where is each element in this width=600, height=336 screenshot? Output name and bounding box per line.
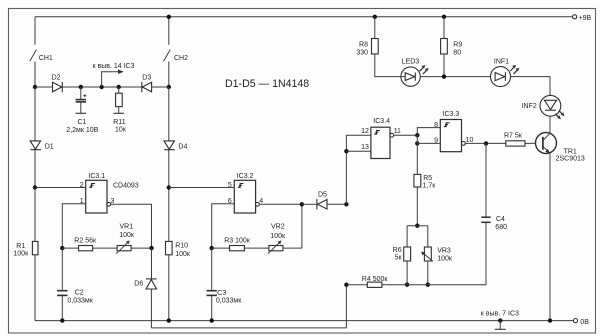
wire feedback vertical to IC3.4 inputs — [346, 135, 371, 204]
potentiometer VR3 — [421, 226, 453, 285]
svg-text:D1: D1 — [45, 144, 54, 151]
wire TR1 collector to INF2 — [549, 116, 551, 133]
wire IC3.2 pin 5 — [169, 187, 235, 189]
svg-text:INF1: INF1 — [494, 59, 509, 66]
svg-text:680: 680 — [495, 224, 507, 231]
switch CH2 — [164, 50, 171, 62]
svg-text:100к: 100к — [437, 255, 453, 262]
LED INF1 — [491, 59, 520, 87]
svg-text:5к: 5к — [395, 255, 403, 262]
node out11 junction — [415, 133, 419, 137]
node VR1 right junction — [149, 246, 153, 250]
resistor R6 — [393, 226, 411, 285]
node pin7 tap — [498, 318, 502, 322]
wire IC3.2 pin 6 — [212, 204, 235, 248]
svg-text:VR3: VR3 — [437, 248, 451, 255]
svg-text:LED3: LED3 — [402, 59, 420, 66]
node R8 top — [373, 15, 377, 19]
potentiometer VR1 — [116, 224, 151, 254]
resistor R7 — [504, 132, 543, 146]
svg-text:INF2: INF2 — [522, 103, 537, 110]
node TR1 emitter bottom — [548, 318, 552, 322]
node arrow tap — [99, 85, 103, 89]
wire bottom 0V bus — [35, 320, 573, 322]
svg-text:IC3.2: IC3.2 — [237, 173, 254, 180]
svg-text:R8: R8 — [359, 42, 368, 49]
svg-text:CH1: CH1 — [39, 55, 53, 62]
svg-text:R6: R6 — [393, 247, 402, 254]
svg-text:5: 5 — [228, 182, 232, 189]
svg-text:+9В: +9В — [579, 15, 592, 22]
resistor R11 — [113, 87, 126, 134]
svg-text:2SC9013: 2SC9013 — [556, 156, 585, 163]
node pin13 tap — [344, 149, 348, 153]
wire left vertical upper — [34, 17, 36, 45]
svg-text:0,033мк: 0,033мк — [67, 297, 93, 304]
node right D3 junction — [167, 85, 171, 89]
wire IC3.1 output to VR1 right — [111, 204, 152, 248]
wire IC3.3 pin 9 — [417, 135, 440, 143]
node pin2 junction — [33, 185, 37, 189]
wire R6/VR3 top bridge — [407, 225, 428, 227]
wire LED3 to INF1 — [420, 76, 490, 78]
LED INF2 — [522, 95, 565, 119]
LED LED3 — [401, 59, 429, 87]
svg-text:100к: 100к — [13, 251, 29, 258]
svg-text:C2: C2 — [75, 289, 84, 296]
svg-text:R10: R10 — [175, 243, 188, 250]
node C3 bottom — [210, 318, 214, 322]
svg-text:100к: 100к — [119, 232, 135, 239]
capacitor C4 — [481, 143, 507, 284]
svg-text:D2: D2 — [52, 75, 61, 82]
node pin9 junction — [415, 141, 419, 145]
wire IC3.4 out to node — [394, 134, 418, 136]
svg-text:R2 56к: R2 56к — [74, 237, 97, 244]
terminal +9V — [573, 15, 577, 19]
wire INF1 to INF2 — [511, 77, 551, 96]
node D5 branch — [300, 202, 304, 206]
node R10 bottom — [167, 318, 171, 322]
svg-text:80: 80 — [453, 50, 461, 57]
svg-text:9: 9 — [434, 138, 438, 145]
svg-text:1: 1 — [80, 198, 84, 205]
svg-text:13: 13 — [361, 144, 369, 151]
svg-text:2: 2 — [80, 182, 84, 189]
wire CH2 vertical upper — [168, 17, 170, 45]
node R9 bottom junction — [442, 74, 446, 78]
capacitor C3 — [207, 248, 243, 321]
svg-text:6: 6 — [228, 198, 232, 205]
svg-text:330: 330 — [356, 50, 368, 57]
capacitor C2 — [57, 248, 94, 321]
svg-text:2,2мк 10В: 2,2мк 10В — [66, 127, 98, 134]
svg-text:R11: R11 — [113, 119, 125, 126]
svg-text:100к: 100к — [175, 251, 191, 258]
wire IC3.2 output to node — [259, 204, 302, 248]
transistor TR1 — [536, 133, 585, 163]
op-amp gate IC3.1 — [86, 173, 139, 213]
pin bubble IC3.1 out 3 — [107, 202, 111, 206]
svg-text:C1: C1 — [78, 119, 87, 126]
svg-text:VR2: VR2 — [271, 224, 285, 231]
svg-text:8: 8 — [434, 122, 438, 129]
svg-text:VR1: VR1 — [120, 224, 134, 231]
terminal 0V — [573, 319, 577, 323]
svg-text:R4 500к: R4 500к — [362, 276, 389, 283]
svg-text:D1-D5 — 1N4148: D1-D5 — 1N4148 — [225, 78, 309, 90]
diode D4 — [164, 87, 187, 188]
node R3 left junction — [210, 246, 214, 250]
node C4 tap — [484, 141, 488, 145]
wire IC3.4 pin 13 — [346, 150, 371, 152]
svg-text:C4: C4 — [496, 216, 505, 223]
wire top +9V bus — [35, 16, 573, 18]
node R6 bottom — [405, 283, 409, 287]
op-amp gate IC3.3 — [440, 111, 461, 152]
wire left vertical to D2 line — [34, 62, 36, 88]
svg-text:D4: D4 — [178, 144, 187, 151]
svg-text:CH2: CH2 — [174, 55, 188, 62]
resistor R10 — [166, 241, 191, 258]
svg-text:R3 100к: R3 100к — [224, 237, 251, 244]
resistor R3 — [212, 237, 269, 250]
op-amp gate IC3.2 — [234, 173, 255, 213]
node C1 tap — [79, 85, 83, 89]
potentiometer VR2 — [268, 224, 302, 254]
diode D5 — [302, 192, 347, 210]
node C2 bottom — [60, 318, 64, 322]
svg-text:D6: D6 — [134, 281, 143, 288]
node CH2 top — [167, 15, 171, 19]
svg-text:12: 12 — [361, 128, 369, 135]
svg-text:IC3.3: IC3.3 — [443, 111, 460, 118]
pin 7 terminal symbol — [481, 311, 519, 330]
wire IC3.1 pin 2 — [35, 187, 86, 189]
svg-text:3: 3 — [111, 198, 115, 205]
diode D3 — [142, 75, 152, 93]
wire TR1 emitter to bus — [549, 153, 551, 320]
resistor R4 — [346, 276, 486, 288]
switch CH1 — [30, 50, 37, 62]
svg-text:0В: 0В — [580, 319, 589, 326]
wire to pin 14 arrow — [93, 63, 135, 87]
svg-text:D3: D3 — [142, 75, 151, 82]
svg-text:100к: 100к — [270, 233, 286, 240]
svg-text:10к: 10к — [115, 127, 127, 134]
diode D6 (to lower feedback line) — [134, 248, 156, 328]
resistor R1 — [13, 241, 38, 257]
svg-text:IC3.4: IC3.4 — [373, 118, 390, 125]
node left D2 junction — [33, 85, 37, 89]
svg-text:10: 10 — [466, 137, 474, 144]
svg-text:R9: R9 — [453, 42, 462, 49]
node R2 left junction — [60, 246, 64, 250]
resistor R2 — [62, 237, 117, 250]
svg-text:1,7к: 1,7к — [423, 183, 437, 190]
node R5 bottom junction — [415, 224, 419, 228]
diode D1 — [30, 87, 54, 188]
svg-text:11: 11 — [394, 128, 401, 135]
svg-text:4: 4 — [259, 198, 263, 205]
svg-text:D5: D5 — [318, 192, 327, 199]
svg-text:IC3.1: IC3.1 — [88, 173, 105, 180]
svg-text:0,033мк: 0,033мк — [216, 297, 242, 304]
svg-text:TR1: TR1 — [564, 149, 577, 156]
wire CH2 vertical to D3 line — [168, 62, 170, 88]
node IC3.2 pin5 junction — [167, 185, 171, 189]
pin bubble IC3.4 out 11 — [390, 133, 394, 137]
pin bubble IC3.2 out 4 — [256, 202, 260, 206]
svg-text:к выв. 7 IC3: к выв. 7 IC3 — [481, 311, 519, 318]
capacitor C1 — [66, 87, 98, 134]
resistor R9 — [441, 17, 463, 77]
wire IC3.1 pin 1 — [62, 204, 85, 248]
wire CH2 vertical to bottom bus — [168, 188, 170, 242]
wire IC3.3 pin 8 — [417, 128, 440, 136]
wire left vertical to bottom bus — [34, 188, 36, 242]
svg-text:C3: C3 — [217, 290, 226, 297]
diode D2 — [52, 75, 63, 93]
svg-text:R7 5к: R7 5к — [504, 132, 523, 139]
op-amp gate IC3.4 — [361, 118, 390, 158]
svg-text:CD4093: CD4093 — [113, 183, 139, 190]
pin bubble IC3.3 out 10 — [462, 142, 466, 146]
node R9 top — [442, 15, 446, 19]
svg-text:к выв. 14 IC3: к выв. 14 IC3 — [93, 63, 135, 70]
node D5 right junction — [344, 202, 348, 206]
svg-text:R1: R1 — [16, 243, 25, 250]
wire IC3.3 out to R7 — [465, 142, 506, 144]
wire D6 lower feedback line — [151, 285, 346, 328]
svg-text:R5: R5 — [423, 175, 432, 182]
node R11 tap — [117, 85, 121, 89]
resistor R8 — [356, 17, 401, 77]
node VR3 bottom — [426, 283, 430, 287]
wire horizontal D2-D3 line — [35, 86, 169, 88]
node R4 left junction — [344, 283, 348, 287]
resistor R5 — [414, 143, 436, 225]
